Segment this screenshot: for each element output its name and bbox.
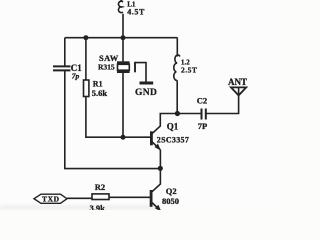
svg-text:GND: GND <box>135 88 157 98</box>
wire rail to R1 <box>85 38 87 80</box>
wire R2 to Q2 base <box>109 196 150 198</box>
ground GND <box>140 82 154 85</box>
wire top rail <box>65 37 178 39</box>
svg-text:4.5T: 4.5T <box>127 7 145 16</box>
wire SAW bottom to base node <box>122 73 124 137</box>
node L2/C2/collector junction <box>175 111 180 116</box>
wire C2 to antenna <box>206 95 238 114</box>
svg-text:R315: R315 <box>98 63 115 72</box>
node emitter/collector junction <box>158 166 163 171</box>
TXD input tag <box>34 194 67 203</box>
svg-text:ANT: ANT <box>228 77 247 87</box>
svg-text:2.5T: 2.5T <box>181 66 197 75</box>
svg-text:Q1: Q1 <box>167 122 179 132</box>
svg-text:7p: 7p <box>72 72 80 81</box>
svg-text:SAW: SAW <box>99 53 119 63</box>
node rail/L1/SAW junction <box>121 35 126 40</box>
SAW case pin wire to ground <box>135 62 146 82</box>
inductor L1 coil <box>118 0 125 38</box>
svg-text:Q2: Q2 <box>166 186 177 196</box>
resistor R1 <box>84 80 89 97</box>
faint scan shadow along bottom edge <box>0 205 160 210</box>
capacitor C1 <box>53 66 71 70</box>
wire node to C2 <box>177 113 201 115</box>
wire Q1 emitter down to Q2 collector <box>152 150 161 192</box>
svg-text:C2: C2 <box>197 96 207 106</box>
wire TXD to R2 <box>67 197 92 199</box>
wire C1 down and along bottom of loop to emitter node <box>65 71 161 169</box>
transistor Q2 <box>151 190 161 212</box>
inductor L2 coil <box>174 38 180 114</box>
capacitor C2 <box>202 109 206 120</box>
wire rail to SAW <box>122 38 124 62</box>
node SAW/base junction <box>121 135 126 140</box>
svg-text:2SC3357: 2SC3357 <box>157 136 189 145</box>
svg-text:3.9k: 3.9k <box>90 203 106 210</box>
wire rail to C1 <box>64 38 66 66</box>
SAW resonator R315 crystal <box>117 62 130 72</box>
svg-text:8050: 8050 <box>162 196 179 206</box>
svg-text:TXD: TXD <box>42 194 60 203</box>
svg-text:R2: R2 <box>95 182 105 192</box>
svg-text:7P: 7P <box>198 121 207 131</box>
wire R1 to base rail corner <box>86 97 151 138</box>
node rail/R1 junction <box>83 35 88 40</box>
transistor Q1 <box>151 131 160 150</box>
svg-text:5.6k: 5.6k <box>92 88 108 98</box>
resistor R2 <box>92 194 109 200</box>
antenna ANT <box>231 87 246 95</box>
wire node to Q1 collector <box>152 114 177 134</box>
